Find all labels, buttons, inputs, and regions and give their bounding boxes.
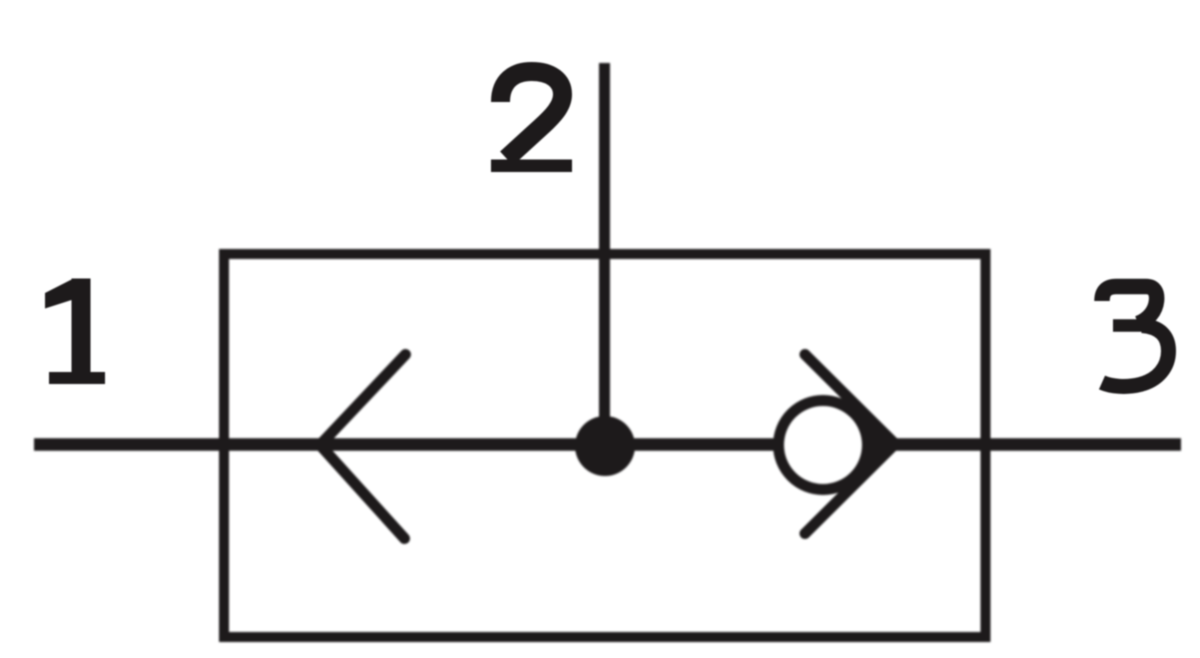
check valve ball (circle): [779, 401, 868, 490]
check valve seat wedge fill: [848, 396, 896, 492]
check valve seat V lines: [805, 355, 895, 534]
node junction dot: [575, 416, 635, 476]
wire port 2 vertical line: [599, 63, 610, 446]
flow arrow (points to port 1): [320, 355, 406, 539]
label 3 (port 3): [1102, 287, 1157, 324]
valve body rectangle: [224, 254, 986, 637]
wire port 1 to port 3 horizontal line: [34, 438, 1181, 451]
label 2 (port 2): [501, 72, 563, 159]
label 1 (port 1): [45, 279, 105, 385]
